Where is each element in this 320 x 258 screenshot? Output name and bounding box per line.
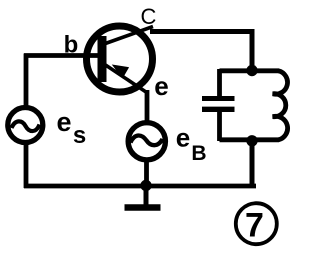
label eS bbox=[56, 107, 86, 149]
svg-text:e: e bbox=[154, 71, 168, 101]
wire base lead horizontal bbox=[24, 53, 100, 58]
label eB bbox=[176, 123, 207, 166]
wire left vertical upper bbox=[24, 54, 29, 108]
figure number 7 bbox=[236, 203, 277, 244]
svg-text:e: e bbox=[56, 107, 71, 137]
svg-text:s: s bbox=[73, 122, 86, 149]
source EB bbox=[128, 123, 165, 160]
svg-text:b: b bbox=[64, 32, 79, 59]
wire EB to ground node bbox=[144, 160, 149, 186]
wire left vertical lower bbox=[24, 143, 29, 188]
inductor L1 bbox=[273, 71, 288, 140]
capacitor C1 bbox=[202, 69, 235, 141]
wire bottom bus bbox=[24, 184, 256, 189]
wire tank top horizontal bbox=[220, 68, 280, 73]
svg-text:B: B bbox=[191, 142, 206, 165]
wire right vertical upper bbox=[250, 29, 255, 70]
wire tank bottom horizontal bbox=[220, 137, 280, 142]
node bottom of tank bbox=[246, 135, 257, 146]
wire emitter vertical bbox=[145, 90, 150, 122]
ground bbox=[125, 186, 161, 208]
svg-text:C: C bbox=[141, 4, 157, 29]
svg-text:7: 7 bbox=[245, 207, 264, 245]
junction dot ground node bbox=[140, 180, 151, 191]
transistor Q1 bbox=[87, 26, 154, 93]
wire right vertical lower bbox=[250, 141, 255, 188]
source ES bbox=[8, 108, 43, 143]
node top of tank bbox=[246, 65, 257, 76]
svg-text:e: e bbox=[176, 123, 190, 153]
wire top collector bus bbox=[150, 29, 254, 34]
